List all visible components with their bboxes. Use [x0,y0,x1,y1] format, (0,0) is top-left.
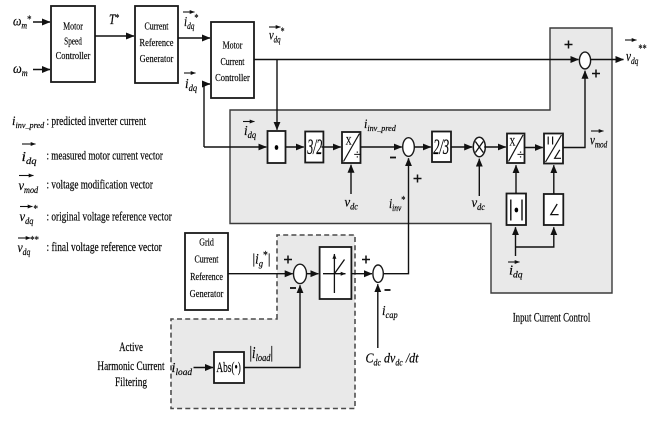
label v_dc 2 [472,194,486,212]
svg-text:Motor: Motor [63,20,83,33]
label C_dc dv_dc/dt [366,350,419,368]
svg-text:Cdc dvdc /dt: Cdc dvdc /dt [366,350,419,368]
legend v_dq** vector [18,234,162,257]
label i_dq* (vector) [183,12,199,31]
svg-text:X: X [509,136,516,149]
sign minus grid summing [290,287,296,289]
svg-text:Controller: Controller [56,50,91,62]
sign plus at summing junction 1 bottom [414,175,422,183]
svg-text:÷: ÷ [517,147,524,162]
summing junction top right [579,52,590,69]
svg-text:Generator: Generator [140,53,174,65]
block X-divide 2 [507,134,525,164]
sign minus at summing junction 1 [390,157,396,159]
block absolute value [507,194,527,226]
wire X-divide to summing junction 1 [361,146,402,148]
sign minus summing 2 [385,289,391,291]
legend i_dq vector [22,144,164,167]
svg-text:Harmonic Current: Harmonic Current [97,359,165,373]
wire i_inv* from grid summing up into summing junction 1 [383,158,408,274]
wire branch v_dq* down into dot-product block [276,60,278,130]
svg-text:Reference: Reference [140,37,174,49]
label i_load [172,360,193,378]
summing junction 1 [403,138,415,157]
svg-text:: measured motor current vecto: : measured motor current vector [47,149,164,163]
svg-text:3/2: 3/2 [307,134,323,159]
wire i_dq branch to angle block [516,227,554,247]
svg-text:Generator: Generator [190,288,224,300]
legend i_inv_pred [12,114,147,130]
wire i_load into Abs [194,367,214,369]
svg-text:Reference: Reference [190,271,223,284]
block angle [544,194,564,225]
block Current Reference Generator [135,6,178,83]
svg-text:: predicted inverter current: : predicted inverter current [47,115,147,129]
label i_inv* [389,195,406,213]
svg-text:: original voltage reference v: : original voltage reference vector [47,210,172,224]
wire X-divide 2 to magnitude-angle combiner [525,147,543,149]
wire summing junction 1 to 2/3 [414,146,431,148]
wire v_dc into multiplier [478,159,480,196]
wire v_dq* from Motor Current Controller to top summing junction [254,59,579,61]
label v_dc 1 [345,194,359,212]
label omega_m [13,60,28,78]
label i_dq (vector, bottom right) [508,262,523,280]
wire limiter to summing junction 2 [351,273,372,275]
dashed grey region Active Harmonic Current Filtering [171,235,355,409]
wire omega_m* into Motor Speed Controller [33,21,50,23]
sign plus top summing left [565,41,573,49]
legend v_mod vector [19,176,154,196]
label |i_g*| [253,250,271,270]
wire Motor Speed Controller to Current Reference Generator [95,35,134,37]
svg-text:Filtering: Filtering [115,375,147,389]
svg-text:Current: Current [195,253,219,266]
label i_dq (vector, into dot product) [243,122,257,141]
svg-text:Grid: Grid [199,236,214,249]
grey region Input Current Control [230,28,612,293]
wire absolute value to X-divide 2 [515,165,517,193]
block 3/2 [305,132,323,163]
block magnitude-angle combiner [544,134,563,164]
legend v_dq* vector [20,204,172,227]
label i_cap [382,302,398,320]
svg-text:Controller: Controller [215,72,250,84]
wire omega_m into Motor Speed Controller [33,69,50,71]
block 2/3 [432,132,451,163]
svg-text:Input Current Control: Input Current Control [513,311,591,325]
block dot product [268,131,286,163]
wire i_dq into Motor Current Controller [204,84,210,147]
svg-text:X: X [346,135,353,148]
svg-text:: voltage modification vector: : voltage modification vector [47,178,154,192]
wire Current Reference Generator to Motor Current Controller [178,37,210,39]
label i_dq (vector, measured into controller) [184,73,198,93]
svg-text:Motor: Motor [223,39,243,52]
label v_mod (vector) [590,131,608,150]
block Abs [214,352,244,383]
wire i_cap into summing junction 2 [377,284,379,348]
label T* [109,11,120,28]
wire i_dq up into absolute value block [515,227,517,256]
wire dot product to 3/2 [286,146,304,148]
label Input Current Control [513,311,591,325]
wire grid summing to limiter [307,273,319,275]
svg-text:÷: ÷ [354,147,361,162]
block X-divide 1 [342,132,361,163]
label i_inv_pred on wire [364,117,397,133]
summing junction grid [294,264,307,283]
block Grid Current Reference Generator [185,233,228,310]
sign plus grid summing [284,256,292,264]
svg-text:Current: Current [221,56,245,69]
wire 2/3 to multiplier [451,146,472,148]
multiplier circle with X [473,137,485,156]
label v_dq** (vector) [625,40,647,66]
wire 3/2 to X-divide [322,146,341,148]
label Active Harmonic Current Filtering [97,341,165,390]
block Motor Current Controller [211,22,254,98]
label v_dq* (vector) [269,25,285,44]
summing junction 2 [373,265,383,282]
svg-text:Current: Current [145,20,169,33]
block limiter [320,247,352,299]
svg-text:Active: Active [119,341,143,355]
wire Abs output up into grid summing junction [244,285,300,367]
wire multiplier to X-divide 2 [484,146,506,148]
wire v_mod up to top summing junction [563,71,585,148]
svg-text:2/3: 2/3 [433,134,449,159]
svg-text:Abs(•): Abs(•) [216,359,240,376]
svg-text:: final voltage reference vect: : final voltage reference vector [47,241,162,255]
sign plus top summing bottom [592,70,600,78]
label |i_load| [250,345,273,365]
wire i_dq into dot product block [204,146,266,148]
block Motor Speed Controller [51,6,95,82]
sign plus summing 2 [362,256,370,264]
svg-text:Speed: Speed [64,36,82,48]
wire angle to magnitude-angle combiner [553,165,555,194]
label omega_m* [13,13,32,31]
wire grid reference to grid summing junction [228,273,293,275]
wire output v_dq** [591,59,624,61]
wire v_dc into X-divide 1 [350,165,352,194]
